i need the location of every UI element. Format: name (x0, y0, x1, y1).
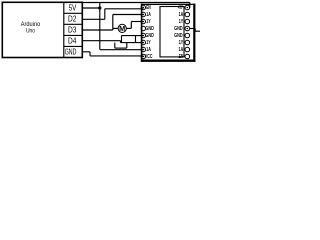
wire brace vertical (121, 36, 123, 43)
wire 5V from arduino to node A (82, 7, 100, 9)
wire GND row4 right exit (189, 28, 195, 30)
wire D4 horizontal (82, 40, 120, 42)
svg-text:5V: 5V (69, 3, 77, 12)
pin circle 1A row2 right (185, 12, 190, 17)
wire D2 jog up (104, 9, 106, 19)
pin circle 1A row7 right (185, 47, 190, 52)
svg-text:1A: 1A (179, 12, 184, 18)
svg-text:GND: GND (145, 33, 153, 39)
wire right exit stub to edge (195, 30, 200, 32)
pin cell divider 4 (64, 45, 83, 47)
svg-text:EN: EN (146, 5, 151, 11)
pin circle GND row5 (141, 33, 145, 37)
wire brace vertical 2 (135, 36, 137, 43)
driver module U2 outer box bottom edge (141, 60, 196, 62)
wire D3 horizontal (82, 29, 113, 31)
wire to pin EN row1 (105, 8, 144, 10)
pin cell divider 3 (64, 34, 83, 36)
svg-text:1A: 1A (146, 12, 151, 18)
svg-text:1A: 1A (179, 47, 184, 53)
wire D4 jog down (120, 41, 122, 43)
driver module U2 outer box left edge (141, 4, 143, 62)
wire loop below row6 left vertical (114, 43, 116, 49)
driver module U2 outer box top edge (141, 3, 196, 5)
svg-text:1A: 1A (146, 47, 151, 53)
pin dot 1A row2 (143, 14, 145, 16)
wire motor right terminal (126, 27, 131, 29)
pin circle EN row1 (141, 5, 145, 9)
pin circle VCC row8 (141, 54, 145, 58)
pin circle +5V row1 right (185, 5, 190, 10)
wire to pin 1Y row3 (131, 21, 143, 23)
wire loop bottom (115, 47, 127, 49)
pin dot VCC row8 (143, 56, 145, 58)
svg-text:D2: D2 (68, 14, 77, 23)
pin circle EN row8 right (185, 54, 190, 59)
wire bus to pin 1A row7 (100, 49, 144, 51)
pin circle 1A row2 (141, 12, 145, 16)
wire GND jog down (89, 52, 91, 56)
wire GND from arduino (82, 51, 90, 53)
wire right exit down (194, 29, 196, 32)
svg-text:1Y: 1Y (146, 40, 151, 46)
pin dot 1Y row6 (143, 42, 145, 44)
pin dot 1Y row3 (143, 21, 145, 23)
pin circle 1Y row3 right (185, 19, 190, 24)
wire vertical bus at x=100 from top rail down (99, 3, 101, 50)
svg-text:Uno: Uno (26, 27, 35, 34)
ic chip body (160, 7, 184, 57)
junction node A dot (98, 6, 101, 9)
svg-text:D4: D4 (68, 37, 77, 46)
wire motor riser to pin 1Y row3 (130, 22, 132, 29)
arduino pin header column left edge (63, 2, 65, 57)
motor M1 (118, 24, 126, 33)
svg-text:1Y: 1Y (146, 19, 151, 25)
wire loop right vertical (126, 43, 128, 49)
svg-text:D3: D3 (68, 26, 77, 35)
pin cell divider 1 (64, 12, 83, 14)
pin circle GND row4 right (185, 26, 190, 31)
wire into motor left terminal (113, 27, 119, 29)
wire to pin 1A row2 (113, 14, 144, 16)
svg-text:GND: GND (145, 26, 153, 32)
wire riser to pin 1A row2 (112, 15, 114, 31)
pin circle GND row5 right (185, 33, 190, 38)
wire top rail +5V (82, 2, 190, 4)
wire D2 horizontal (82, 18, 105, 20)
pin circle 1A row7 (141, 47, 145, 51)
svg-text:1Y: 1Y (179, 19, 184, 25)
pin circle GND row4 (141, 26, 145, 30)
svg-text:GND: GND (174, 33, 183, 39)
wire top rail drop to +5V pin (189, 3, 191, 8)
wire to pin VCC row8 (90, 55, 143, 57)
svg-text:GND: GND (65, 48, 77, 57)
pin cell divider 2 (64, 23, 83, 25)
wire to pin 1Y row6 (121, 42, 144, 44)
svg-text:1Y: 1Y (179, 40, 184, 46)
pin dot EN row1 (143, 7, 145, 9)
pin dot GND row5 (143, 35, 145, 37)
pin circle 1Y row6 right (185, 40, 190, 45)
svg-text:GND: GND (174, 26, 183, 32)
pin dot +5V right (187, 7, 189, 9)
driver module U2 outer box right edge (193, 4, 195, 62)
pin circle 1Y row3 (141, 19, 145, 23)
pin dot GND row4 right (187, 28, 189, 30)
wire brace to pin GND row5 (122, 35, 144, 37)
svg-text:+5V: +5V (178, 5, 183, 11)
arduino board U1 outer box (2, 2, 82, 57)
svg-text:EN: EN (179, 54, 184, 60)
pin circle 1Y row6 (141, 40, 145, 44)
svg-text:M: M (119, 24, 125, 33)
pin dot 1A row7 (143, 49, 145, 51)
svg-text:VCC: VCC (145, 54, 153, 60)
